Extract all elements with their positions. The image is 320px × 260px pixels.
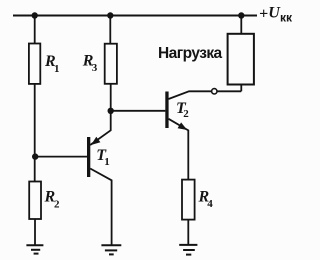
svg-text:Нагрузка: Нагрузка [158,45,223,62]
svg-text:1: 1 [54,63,60,75]
svg-text:2: 2 [183,108,189,120]
svg-text:кк: кк [280,11,293,25]
svg-text:1: 1 [104,156,110,168]
svg-text:4: 4 [207,198,213,210]
svg-text:2: 2 [54,199,60,211]
svg-text:3: 3 [92,62,98,74]
svg-text:+: + [259,5,268,22]
